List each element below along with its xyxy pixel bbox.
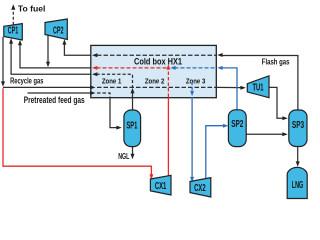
arrow blue down at box bottom <box>190 91 194 96</box>
wire: SP3 bottoms to LNG <box>297 147 299 162</box>
svg-text:Recycle gas: Recycle gas <box>10 76 43 86</box>
arrow row2 red left <box>92 66 97 70</box>
arrow blue into box right edge <box>217 66 222 70</box>
wire: recycle gas line <box>3 86 91 88</box>
arrow blue into CX2 <box>190 177 194 182</box>
arrow TU1 outlet into SP3 <box>282 116 287 120</box>
arrow feed into box <box>90 91 95 95</box>
wire: SP2 vapor riser to box (blue) <box>222 68 237 110</box>
wire: red loop from CP1 discharge down and across to CX1 <box>3 88 151 174</box>
svg-text:Cold box HX1: Cold box HX1 <box>134 56 182 66</box>
wire: row1 exit to CP2 riser <box>64 42 90 56</box>
wire: row2 red dashed stream inside box <box>97 67 168 69</box>
wire: row3 exit left to CP1 (line B) <box>11 42 91 75</box>
wire: row1 dashed flash-gas stream inside box <box>97 54 216 56</box>
svg-text:Zone 3: Zone 3 <box>186 77 206 86</box>
wire: SP1 vapor riser <box>132 92 134 110</box>
arrow red into CX1 <box>149 174 153 179</box>
svg-text:TU1: TU1 <box>253 83 264 94</box>
svg-text:CX1: CX1 <box>155 181 167 192</box>
wire: CX2 outlet up and right to SP2 <box>206 126 224 179</box>
arrow flash gas into box right edge <box>217 53 222 57</box>
wire: flash gas line from SP3 top to box <box>221 56 298 110</box>
wire: to fuel dashed line <box>12 10 14 25</box>
wire: SP2 liquid line to SP3 <box>246 133 283 135</box>
arrow to fuel up <box>11 4 15 10</box>
svg-text:Pretreated feed gas: Pretreated feed gas <box>24 95 85 105</box>
wire: NGL outlet line <box>132 147 134 155</box>
svg-text:To fuel: To fuel <box>18 3 46 13</box>
svg-text:CP1: CP1 <box>8 25 19 36</box>
wire: CP2 drop line to line A <box>47 35 49 62</box>
svg-text:CP2: CP2 <box>53 26 64 37</box>
arrow CP2 drop down <box>46 62 50 67</box>
svg-text:LNG: LNG <box>292 180 304 191</box>
svg-text:SP2: SP2 <box>231 119 244 130</box>
compressor CP1 <box>4 24 23 40</box>
cold box HX1 <box>91 45 217 97</box>
wire: row2 exit left to CP1 (line A) <box>20 42 91 68</box>
expander CX1 <box>150 175 171 195</box>
wire: feed drop to SP1 inlet <box>110 97 118 128</box>
svg-text:SP1: SP1 <box>126 121 137 132</box>
arrow recycle into box <box>90 85 95 89</box>
wire: CP1 left drop to recycle line <box>2 37 4 82</box>
LNG tank <box>287 167 307 198</box>
turbine TU1 <box>247 76 269 98</box>
svg-text:NGL: NGL <box>118 152 129 161</box>
wire: pretreated feed gas line <box>28 92 91 94</box>
arrow red riser up to row2 <box>166 64 170 69</box>
arrow row3 left <box>92 72 97 76</box>
expander CX2 <box>190 178 211 197</box>
arrow into LNG tank <box>296 161 300 166</box>
separator SP2 <box>228 110 246 147</box>
arrow into TU1 <box>240 86 245 90</box>
svg-text:SP3: SP3 <box>292 120 305 131</box>
arrow SP2 liquid into SP3 <box>282 132 287 136</box>
arrow SP1 riser up <box>131 88 135 93</box>
wire: blue branch dashed inside box down to CX2 <box>191 82 193 91</box>
wire: red riser dashed inside box <box>167 70 169 97</box>
arrow into CP1 bottom (line A) <box>18 40 22 45</box>
wire: red riser CX1 to box (solid below box) <box>167 97 169 176</box>
wire: blue drop below box to CX2 <box>191 97 193 178</box>
separator SP1 <box>124 110 141 147</box>
wire: feed dashed inside box turning down to SP1 <box>97 93 110 97</box>
arrow into CP2 bottom <box>62 39 66 44</box>
wire: TU1 feed line <box>216 86 241 88</box>
compressor CP2 <box>45 19 67 40</box>
wire: TU1 outlet to SP3 <box>269 87 284 118</box>
arrow row1 left inside box <box>92 53 97 57</box>
wire: row4 dashed recycle stream inside box <box>97 86 216 88</box>
arrow row2 blue left inside box <box>170 66 175 70</box>
svg-text:Flash gas: Flash gas <box>262 57 290 67</box>
separator SP3 <box>289 110 307 147</box>
arrow into SP1 left <box>116 126 121 130</box>
arrow into CP1 bottom (line B) <box>9 38 13 43</box>
arrow CP1 drop down <box>1 81 5 86</box>
arrow into SP2 left <box>223 124 228 128</box>
wire: row3 dashed stream (SP1 vapor) inside box <box>97 74 133 87</box>
svg-text:Zone 2: Zone 2 <box>145 77 165 86</box>
svg-text:Zone 1: Zone 1 <box>102 77 122 86</box>
svg-text:CX2: CX2 <box>194 183 206 194</box>
arrow NGL down <box>131 154 135 159</box>
wire: row2 blue dashed stream inside box <box>175 67 217 69</box>
